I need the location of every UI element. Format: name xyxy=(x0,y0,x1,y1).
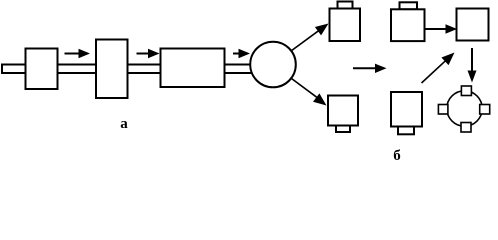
circle (distribution hub) xyxy=(250,42,296,88)
diagonal arrow down (circle to lower square) xyxy=(292,79,327,106)
arrow 1 (between box 1 and box 2) xyxy=(65,49,91,58)
wheel right pad xyxy=(480,105,490,115)
arrow 3 (between box 3 and circle) xyxy=(233,49,250,58)
arrow (v1 to v2) xyxy=(425,24,458,33)
wheel bottom pad xyxy=(461,123,471,133)
bottom square with bottom tab (unit v3) xyxy=(398,126,414,134)
svg-text:а: а xyxy=(120,116,128,132)
vertical arrow (v2 down to wheel) xyxy=(468,48,477,83)
top square with top tab (unit v1) xyxy=(400,2,418,9)
arrow (group a to group b) xyxy=(353,64,387,73)
diagonal arrow (v3 up to v2) xyxy=(422,53,455,84)
box 3 (wide unit on shaft) xyxy=(161,49,225,88)
diagonal arrow up (circle to upper square) xyxy=(291,24,329,52)
shaft (horizontal axis line a) xyxy=(2,65,252,74)
arrow 2 (between box 2 and box 3) xyxy=(137,49,160,58)
box 2 (tall unit on shaft) xyxy=(96,40,128,99)
lower square with bottom tab (unit b2) xyxy=(336,125,350,133)
wheel top pad xyxy=(461,86,471,96)
box 1 (left unit on shaft) xyxy=(26,49,58,90)
top right square (unit v2) xyxy=(457,9,489,41)
wheel left pad xyxy=(438,105,448,115)
upper square with top tab (unit b1) xyxy=(338,2,353,10)
svg-text:б: б xyxy=(393,148,401,164)
wheel circle (rotary unit) xyxy=(447,91,482,126)
